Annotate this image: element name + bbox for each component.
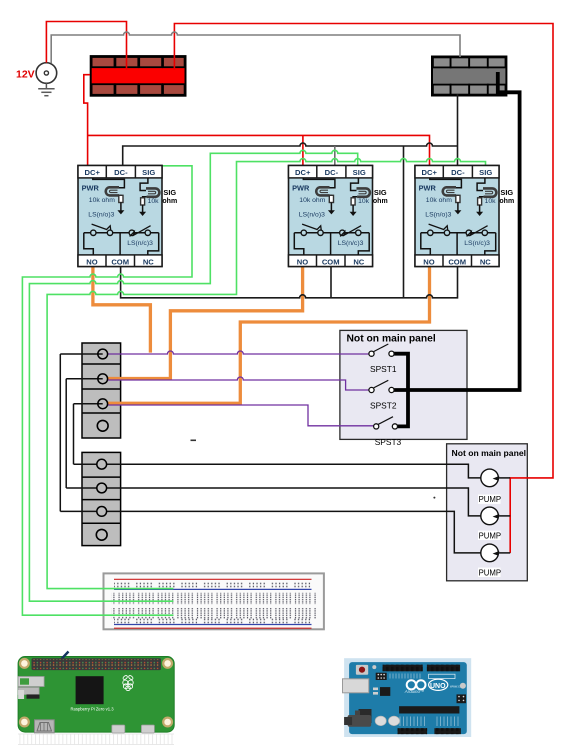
svg-text:Not on main panel: Not on main panel: [452, 448, 526, 458]
terminal C2: [98, 374, 108, 384]
wire green relay3 SIG to breadboard: [47, 159, 485, 589]
wire lower strip 1 to pump 1: [107, 464, 481, 478]
stray dash mark: [191, 440, 197, 442]
wire 12V+ red from source to red block: [46, 22, 126, 71]
left terminal strip lower (pump feeds): [82, 452, 121, 545]
lower terminal 2: [97, 483, 107, 493]
svg-text:Raspberry Pi Zero v1.3: Raspberry Pi Zero v1.3: [71, 707, 115, 712]
wire orange relay3 NO to C3: [108, 267, 430, 404]
svg-text:SPST1: SPST1: [370, 364, 397, 374]
terminal O spare: [97, 420, 108, 431]
wire orange relay1 NO to C1: [93, 267, 150, 353]
wire terminal C2 to lower strip: [66, 379, 103, 488]
svg-text:UNO: UNO: [430, 683, 446, 690]
wire gray relay2 DC- drop: [334, 146, 336, 166]
svg-text:SPST2: SPST2: [370, 401, 397, 411]
lower terminal 1: [97, 459, 107, 469]
svg-text:PUMP: PUMP: [479, 531, 502, 540]
left terminal strip upper (C C C O): [82, 343, 121, 438]
wire +12V rail to relay DC+ pins: [84, 75, 430, 166]
wire black COM bus: [121, 267, 458, 298]
lower terminal O spare: [96, 529, 107, 540]
12V source V1: [36, 63, 57, 84]
pump P3: [478, 544, 510, 577]
svg-text:PUMP: PUMP: [479, 495, 502, 504]
wire terminal C1 to lower strip: [60, 354, 102, 511]
Arduino Uno board: [343, 658, 472, 737]
Not on main panel box (SPST switches): [340, 330, 467, 439]
breadboard: [104, 573, 324, 629]
terminal C1: [98, 349, 108, 359]
wire orange relay2 NO to C2: [108, 267, 303, 379]
red power terminal block TB1: [91, 56, 186, 96]
switch SPST3: [374, 417, 402, 447]
wire ground bus to relay DC- pins: [123, 94, 458, 298]
wire green relay1 SIG to breadboard: [22, 166, 192, 615]
wire lower strip 3 to pump 3: [107, 511, 481, 553]
svg-text:SPST3: SPST3: [375, 437, 402, 447]
relay module U2: [289, 166, 388, 267]
svg-text:Not on main panel: Not on main panel: [347, 334, 436, 345]
wire 12V+ red bus to pump box: [174, 24, 553, 553]
faint pcb edge ticks: [18, 734, 174, 745]
pump P1: [478, 469, 510, 504]
wire thick black from ground block to SPST2: [394, 72, 520, 390]
wire purple C1 to SPST1: [108, 351, 369, 354]
svg-text:12V: 12V: [16, 69, 35, 81]
pump P2: [478, 507, 510, 540]
switch SPST2: [369, 380, 397, 410]
switch SPST1: [369, 344, 397, 374]
wire gray from source to ground block: [51, 32, 460, 63]
wire green relay2 SIG to breadboard: [29, 150, 357, 601]
wire purple C3 to SPST3: [108, 405, 374, 426]
wire terminal C3 to lower strip: [74, 404, 103, 464]
svg-text:Arduino™: Arduino™: [404, 689, 425, 694]
relay module U3: [415, 166, 514, 267]
stray dot mark: [433, 497, 435, 499]
relay module U1: [78, 166, 177, 267]
wire purple C2 to SPST2: [108, 377, 369, 390]
terminal C3: [98, 399, 108, 409]
gray ground terminal block TB2: [432, 57, 506, 96]
svg-text:PUMP: PUMP: [479, 568, 502, 577]
wire thick black SPST bus: [394, 354, 408, 427]
lower terminal 3: [97, 507, 107, 517]
Raspberry Pi Zero board: [18, 652, 174, 734]
Not on main panel box (pumps): [447, 444, 528, 581]
ground: [38, 83, 54, 95]
wire lower strip 2 to pump 2: [107, 488, 481, 516]
